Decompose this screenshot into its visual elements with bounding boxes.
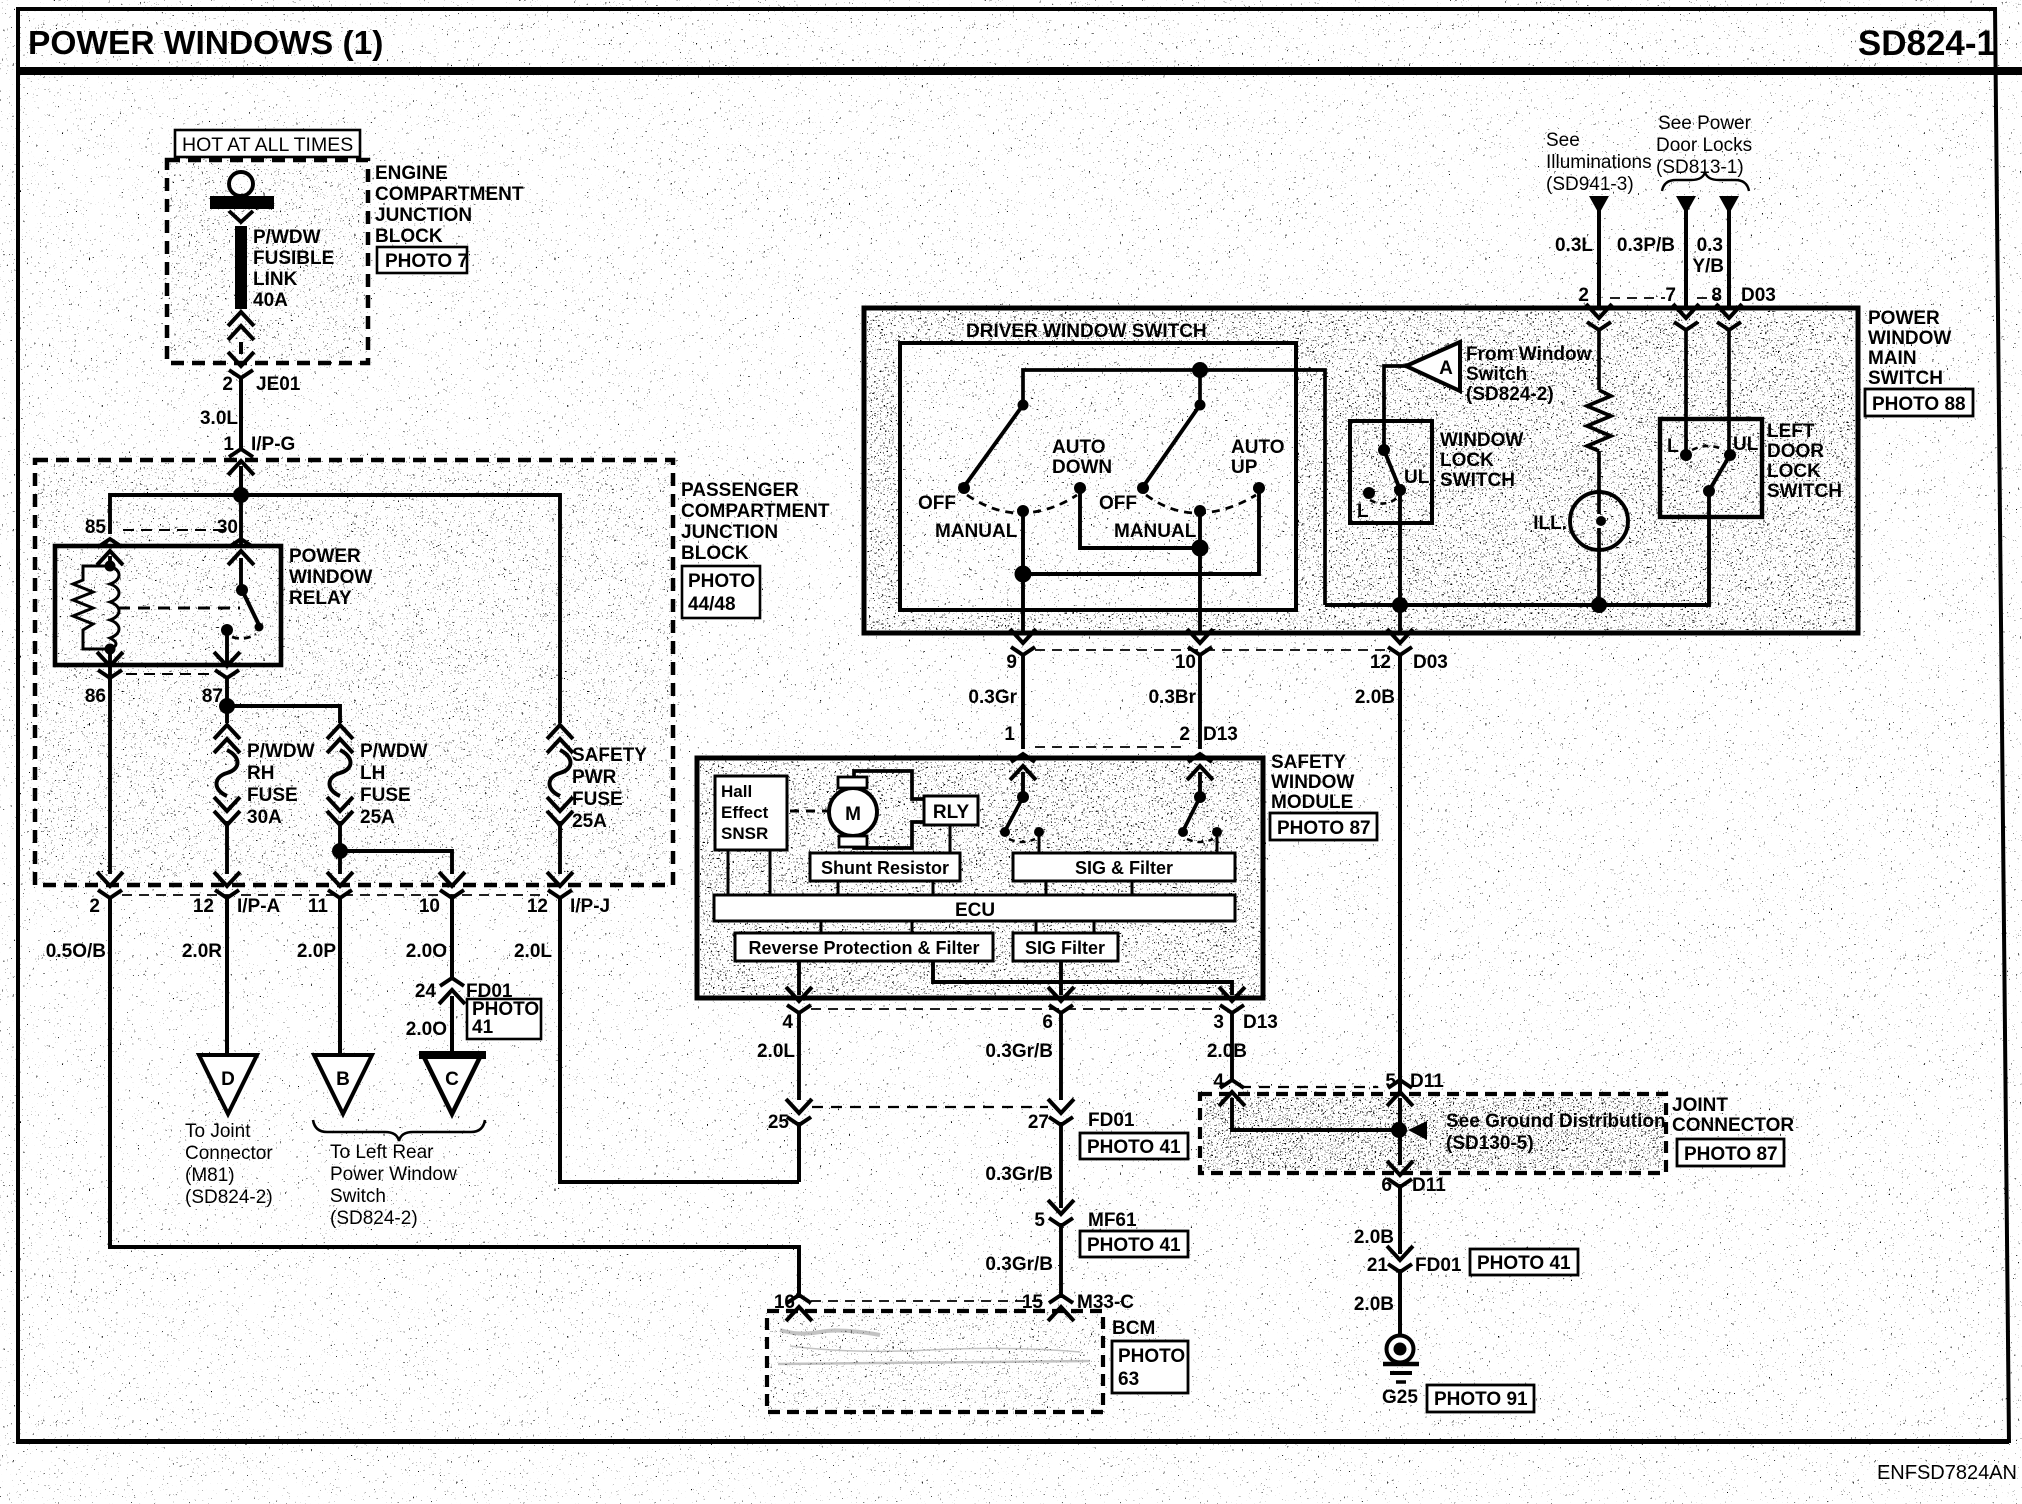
wire switch2 to SIG & Filter	[1216, 832, 1219, 853]
wire top rail right to safety fuse	[241, 495, 560, 723]
module switch 1 arm	[1006, 797, 1023, 829]
svg-text:OFF: OFF	[918, 493, 956, 514]
svg-text:3: 3	[1213, 1012, 1224, 1033]
node: top feed junction	[233, 487, 249, 503]
module switch 1 top contact	[1017, 791, 1029, 803]
svg-text:2: 2	[222, 374, 233, 395]
svg-text:10: 10	[1175, 652, 1196, 673]
wire reverse box to module pin 4	[797, 961, 801, 995]
svg-text:PHOTO 41: PHOTO 41	[1477, 1253, 1571, 1274]
svg-text:D: D	[221, 1069, 235, 1090]
svg-text:25A: 25A	[360, 807, 395, 828]
svg-text:2.0B: 2.0B	[1354, 1227, 1394, 1248]
wire pin 87 to fuse node	[225, 678, 229, 706]
svg-text:25: 25	[768, 1112, 790, 1133]
wire UL contact down to pin 12	[1398, 490, 1402, 633]
battery terminal B+ circle	[229, 172, 253, 196]
door lock UL contact	[1724, 449, 1736, 461]
svg-text:BCM: BCM	[1112, 1318, 1155, 1339]
svg-text:21: 21	[1367, 1255, 1389, 1276]
node fuse branch	[219, 698, 235, 714]
passenger block name label	[681, 480, 830, 564]
svg-text:A: A	[1439, 358, 1453, 379]
note: to left rear power window switch	[330, 1142, 457, 1229]
motor brush bottom	[839, 836, 867, 847]
svg-text:11: 11	[308, 896, 329, 917]
svg-text:SIG Filter: SIG Filter	[1025, 938, 1105, 958]
connector pin 7 into switch	[1673, 304, 1699, 330]
wire pin 7 down to L contact	[1684, 330, 1688, 455]
svg-text:(SD813-1): (SD813-1)	[1656, 157, 1744, 178]
svg-text:P/WDW: P/WDW	[247, 741, 315, 762]
ground rail inside switch	[1325, 517, 1709, 605]
SIG Filter box	[1013, 933, 1118, 961]
dashed connector row 86-87	[126, 673, 214, 675]
wire down to relay pin 30	[239, 495, 243, 546]
PHOTO 41 box (MF61)	[1080, 1231, 1188, 1257]
wire branch to LH fuse	[227, 706, 340, 723]
left switch arm	[966, 405, 1023, 484]
wire LH fuse node down	[338, 851, 342, 874]
svg-text:10: 10	[419, 896, 440, 917]
door lock arm	[1710, 455, 1730, 489]
svg-text:FD01: FD01	[1415, 1255, 1462, 1276]
svg-text:Y/B: Y/B	[1692, 256, 1724, 277]
RLY box	[924, 796, 978, 825]
svg-text:24: 24	[415, 981, 437, 1002]
svg-text:FUSE: FUSE	[572, 789, 623, 810]
SIG & Filter box	[1013, 853, 1235, 881]
svg-text:LOCK: LOCK	[1767, 461, 1821, 482]
svg-text:30: 30	[217, 517, 238, 538]
wire JE01 to I/P-G 3.0L	[239, 378, 243, 448]
svg-text:30A: 30A	[247, 807, 282, 828]
svg-text:JE01: JE01	[256, 374, 301, 395]
svg-text:44/48: 44/48	[688, 594, 736, 615]
module switch 2 top contact	[1194, 791, 1206, 803]
wire 0.3Y/B	[1727, 210, 1731, 306]
svg-text:12: 12	[193, 896, 214, 917]
feed arrowhead 0.3Y/B	[1719, 196, 1739, 214]
svg-text:WINDOW: WINDOW	[289, 567, 372, 588]
module switch 2 dashed arc	[1187, 839, 1213, 842]
wire fusible link to JE01	[239, 342, 243, 354]
PHOTO 41 box (FD01)	[1080, 1133, 1188, 1159]
see ground distribution arrow	[1408, 1121, 1427, 1140]
svg-text:PHOTO 91: PHOTO 91	[1434, 1389, 1528, 1410]
DRIVER WINDOW SWITCH sub-box	[900, 343, 1296, 610]
left border line	[16, 7, 20, 1443]
svg-text:PHOTO: PHOTO	[1118, 1346, 1185, 1367]
svg-text:2.0B: 2.0B	[1354, 1294, 1394, 1315]
svg-text:2: 2	[1179, 724, 1190, 745]
wire AUTO DOWN contact to pin10 wire	[1080, 488, 1200, 548]
connector JE01 at box exit	[228, 352, 254, 378]
svg-text:BLOCK: BLOCK	[375, 226, 443, 247]
BCM interior scan smudge	[778, 1330, 1090, 1364]
PHOTO 87 label box (module)	[1270, 813, 1377, 840]
door lock throw dashed arc	[1692, 446, 1724, 450]
right border line (slightly skewed scan)	[1993, 7, 2011, 1443]
window lock switch label	[1440, 430, 1523, 491]
svg-text:0.3Gr/B: 0.3Gr/B	[985, 1164, 1053, 1185]
module switch 1 left contact	[1000, 827, 1010, 837]
svg-text:Switch: Switch	[1466, 364, 1527, 385]
svg-text:ENGINE: ENGINE	[375, 163, 448, 184]
svg-text:5: 5	[1034, 1210, 1045, 1231]
wire joint pin5 through box	[1398, 1098, 1402, 1165]
wire node to RH fuse	[225, 706, 229, 723]
wire branch to pin 10	[340, 851, 452, 874]
PHOTO 88 label box	[1865, 389, 1973, 416]
svg-text:COMPARTMENT: COMPARTMENT	[375, 184, 524, 205]
svg-text:SD824-1: SD824-1	[1858, 24, 1996, 63]
svg-text:G25: G25	[1382, 1387, 1418, 1408]
wire module pin1 to switch	[1021, 772, 1025, 797]
svg-text:(SD824-2): (SD824-2)	[185, 1187, 273, 1208]
node LH fuse to pin10 branch	[332, 843, 348, 859]
connector module pin 4	[786, 987, 812, 1013]
module box	[697, 758, 1263, 998]
thin dashed connector row 9-10-12	[1035, 649, 1388, 651]
connector BCM pin 16	[786, 1295, 812, 1321]
wire AUTO UP contact to pin9 wire	[1023, 488, 1259, 574]
svg-text:BLOCK: BLOCK	[681, 543, 749, 564]
svg-text:25A: 25A	[572, 811, 607, 832]
connector pin 12 D03	[1387, 629, 1413, 655]
svg-text:Reverse Protection & Filter: Reverse Protection & Filter	[748, 938, 979, 958]
svg-text:AUTO: AUTO	[1231, 437, 1284, 458]
note: see power door locks	[1656, 113, 1752, 178]
node rail to right switch	[1192, 362, 1208, 378]
svg-text:6: 6	[1381, 1175, 1392, 1196]
wire 2.0B pin12 down	[1398, 655, 1402, 1092]
connector BCM pin 15	[1048, 1295, 1074, 1321]
dashed link hall to motor	[790, 810, 828, 813]
title separator thick bar	[19, 67, 2022, 75]
top rail wire	[1023, 370, 1325, 605]
thin dashed connector row	[122, 894, 548, 896]
relay name label	[289, 546, 372, 609]
engine compartment junction block dashed box	[167, 160, 368, 363]
svg-text:To Left Rear: To Left Rear	[330, 1142, 434, 1163]
svg-text:3.0L: 3.0L	[200, 408, 238, 429]
svg-text:L: L	[1667, 436, 1679, 457]
module switch 2 arm	[1184, 797, 1200, 829]
under-brace for triangles B and C	[313, 1120, 485, 1141]
svg-text:D03: D03	[1741, 285, 1776, 306]
svg-text:DOOR: DOOR	[1767, 441, 1824, 462]
connector pin 87	[214, 652, 240, 678]
svg-text:See: See	[1546, 130, 1580, 151]
relay switch arm tip dot	[255, 623, 264, 632]
svg-text:FUSE: FUSE	[247, 785, 298, 806]
connector pin 11	[327, 872, 353, 898]
connector joint pin 6 exit	[1387, 1161, 1413, 1187]
svg-text:D13: D13	[1203, 724, 1238, 745]
svg-text:Effect: Effect	[721, 803, 769, 822]
connector pin 86	[97, 652, 123, 678]
svg-text:86: 86	[85, 686, 106, 707]
svg-text:PHOTO 87: PHOTO 87	[1684, 1144, 1778, 1165]
svg-text:2.0P: 2.0P	[297, 941, 336, 962]
connector 24 FD01	[439, 978, 465, 1004]
wire module pin 6 down	[1059, 1013, 1063, 1100]
wire switch1 to SIG & Filter	[1038, 832, 1041, 853]
svg-text:PHOTO 41: PHOTO 41	[1087, 1235, 1181, 1256]
svg-text:I/P-A: I/P-A	[237, 896, 281, 917]
connector pin 9	[1010, 629, 1036, 655]
illumination resistor wire	[1597, 330, 1601, 390]
svg-text:B: B	[336, 1069, 350, 1090]
svg-text:Switch: Switch	[330, 1186, 386, 1207]
connector module pin 6	[1048, 987, 1074, 1013]
svg-text:Door Locks: Door Locks	[1656, 135, 1752, 156]
svg-text:63: 63	[1118, 1369, 1139, 1390]
svg-text:2.0B: 2.0B	[1207, 1041, 1247, 1062]
wire 21 to ground	[1398, 1269, 1402, 1336]
svg-text:0.3Br: 0.3Br	[1148, 687, 1196, 708]
note: see ground distribution	[1446, 1111, 1666, 1154]
HOT AT ALL TIMES label box	[175, 130, 360, 157]
connector 27 FD01	[1048, 1099, 1074, 1125]
svg-text:LOCK: LOCK	[1440, 450, 1494, 471]
right switch top contact	[1195, 400, 1206, 411]
svg-text:2: 2	[89, 896, 100, 917]
stubs shunt to ECU	[837, 881, 840, 895]
svg-text:WINDOW: WINDOW	[1868, 328, 1951, 349]
main switch box	[864, 308, 1858, 633]
svg-text:OFF: OFF	[1099, 493, 1137, 514]
svg-text:RLY: RLY	[933, 802, 970, 823]
svg-text:0.3Gr/B: 0.3Gr/B	[985, 1254, 1053, 1275]
joint connector dashed box	[1200, 1094, 1666, 1173]
svg-text:PHOTO 88: PHOTO 88	[1872, 394, 1966, 415]
connector module pin 1	[1010, 754, 1036, 780]
wire 25 to U-turn	[797, 1122, 801, 1182]
Hall Effect SNSR box	[715, 776, 787, 850]
PHOTO 91 label box	[1427, 1385, 1534, 1412]
svg-text:2.0L: 2.0L	[514, 941, 552, 962]
passenger compartment junction block dashed box	[35, 460, 673, 885]
svg-text:(SD130-5): (SD130-5)	[1446, 1133, 1534, 1154]
dashed connector row 2-7-8	[1610, 297, 1665, 299]
svg-text:0.5O/B: 0.5O/B	[46, 941, 106, 962]
svg-text:MANUAL: MANUAL	[935, 521, 1018, 542]
svg-text:I/P-G: I/P-G	[251, 434, 295, 455]
svg-text:Connector: Connector	[185, 1143, 273, 1164]
right switch MANUAL contact	[1194, 505, 1206, 517]
lock switch L contact	[1363, 487, 1375, 499]
svg-text:RELAY: RELAY	[289, 588, 352, 609]
wire pin 2 down and across to BCM pin 16	[110, 898, 799, 1298]
motor frame	[854, 771, 924, 848]
thin dashed connector row 16-15	[811, 1300, 1048, 1302]
svg-text:LEFT: LEFT	[1767, 421, 1815, 442]
connector 5 MF61	[1048, 1200, 1074, 1226]
right switch feed stub	[1198, 370, 1202, 404]
svg-text:1: 1	[223, 434, 234, 455]
wire MF61 down to BCM pin 15	[1059, 1223, 1063, 1298]
note: to joint connector	[185, 1121, 273, 1208]
WINDOW LOCK SWITCH box	[1350, 421, 1432, 523]
resistor (illumination)	[1587, 390, 1611, 451]
svg-text:(SD824-2): (SD824-2)	[1466, 384, 1554, 405]
svg-text:MF61: MF61	[1088, 1210, 1137, 1231]
svg-text:WINDOW: WINDOW	[1271, 772, 1354, 793]
svg-text:JUNCTION: JUNCTION	[681, 522, 778, 543]
svg-text:8: 8	[1711, 285, 1722, 306]
svg-text:P/WDW: P/WDW	[360, 741, 428, 762]
door lock common contact	[1703, 485, 1715, 497]
connector pin 10	[1187, 629, 1213, 655]
wire pin 86 down to box exit	[108, 678, 112, 874]
svg-text:PHOTO 87: PHOTO 87	[1277, 818, 1371, 839]
destination triangle B	[314, 1055, 372, 1114]
svg-text:12: 12	[1370, 652, 1391, 673]
node AUTO UP crossover on pin9 wire	[1015, 566, 1032, 583]
svg-text:UL: UL	[1733, 434, 1759, 455]
svg-text:POWER: POWER	[289, 546, 361, 567]
ECU box	[714, 895, 1235, 921]
stubs ECU to reverse protection	[820, 921, 823, 933]
note: see illuminations	[1546, 130, 1652, 195]
wire 0.3Br pin10 to module pin2	[1198, 655, 1202, 749]
svg-text:RH: RH	[247, 763, 274, 784]
stubs hall to ECU	[727, 850, 730, 895]
svg-text:(SD941-3): (SD941-3)	[1546, 174, 1634, 195]
relay coil (bumps)	[110, 566, 119, 649]
connector 25	[786, 1099, 812, 1125]
relay coil bottom node	[105, 644, 116, 655]
svg-text:12: 12	[527, 896, 548, 917]
svg-text:0.3Gr: 0.3Gr	[968, 687, 1017, 708]
BCM dashed box	[767, 1311, 1103, 1412]
relay resistor (parallel)	[73, 566, 110, 649]
svg-text:9: 9	[1006, 652, 1017, 673]
connector pin 85	[97, 539, 123, 565]
svg-text:6: 6	[1042, 1012, 1053, 1033]
svg-text:ILL.: ILL.	[1533, 513, 1567, 534]
relay mechanical link dashed	[118, 607, 240, 610]
SAFETY PWR FUSE 25A	[547, 725, 573, 753]
svg-text:D11: D11	[1410, 1071, 1444, 1092]
lock switch arm to UL	[1384, 450, 1399, 487]
PHOTO 87 label box (joint)	[1677, 1139, 1784, 1166]
wire lamp down to rail	[1597, 550, 1601, 605]
svg-text:PHOTO: PHOTO	[688, 571, 755, 592]
wire pin 8 down to UL contact	[1727, 330, 1731, 455]
battery bus bar	[210, 196, 274, 209]
svg-text:FUSE: FUSE	[360, 785, 411, 806]
Reverse Protection & Filter box	[735, 933, 993, 961]
svg-text:1: 1	[1004, 724, 1015, 745]
svg-text:2.0B: 2.0B	[1355, 687, 1395, 708]
wire joint pin4 to ground bus	[1232, 1098, 1399, 1130]
lock switch throw dashed arc	[1370, 498, 1397, 504]
wire RLY down to shunt	[949, 825, 952, 853]
svg-text:SAFETY: SAFETY	[572, 745, 647, 766]
connector pin 30	[228, 539, 254, 565]
connector pin 10	[439, 872, 465, 898]
relay coil top node	[105, 561, 116, 572]
right switch OFF contact	[1137, 482, 1149, 494]
svg-text:ECU: ECU	[955, 900, 995, 921]
wire module pin 4 down	[797, 1013, 801, 1100]
svg-text:0.3P/B: 0.3P/B	[1617, 235, 1675, 256]
svg-text:L: L	[1357, 501, 1369, 522]
svg-text:AUTO: AUTO	[1052, 437, 1105, 458]
connector module pin 3	[1219, 987, 1245, 1013]
svg-text:POWER: POWER	[1868, 308, 1940, 329]
svg-text:0.3: 0.3	[1697, 235, 1723, 256]
wire resistor to lamp	[1597, 451, 1601, 492]
dashed connector row 4-5 D11	[1240, 1086, 1378, 1088]
svg-text:Hall: Hall	[721, 782, 752, 801]
svg-text:2.0L: 2.0L	[757, 1041, 795, 1062]
svg-text:CONNECTOR: CONNECTOR	[1672, 1115, 1794, 1136]
left switch throw dashed arc	[967, 495, 1077, 513]
svg-text:MANUAL: MANUAL	[1114, 521, 1197, 542]
module switch 2 right contact	[1212, 827, 1222, 837]
wire pin 12 I/P-A down to triangle D	[225, 898, 229, 1053]
PHOTO 44/48 label box	[682, 566, 760, 618]
relay switch dashed throw arc	[232, 634, 256, 638]
svg-text:P/WDW: P/WDW	[253, 227, 321, 248]
svg-text:D13: D13	[1243, 1012, 1278, 1033]
lock switch UL contact	[1394, 484, 1406, 496]
wire pin 10 down to FD01 connector	[450, 898, 454, 978]
svg-text:To Joint: To Joint	[185, 1121, 251, 1142]
ILL lamp	[1570, 492, 1628, 550]
connector joint pin 5	[1387, 1080, 1413, 1106]
top border line	[16, 7, 1995, 11]
relay switch arm	[242, 590, 259, 625]
svg-text:2.0O: 2.0O	[406, 941, 447, 962]
svg-text:WINDOW: WINDOW	[1440, 430, 1523, 451]
svg-text:See Power: See Power	[1658, 113, 1752, 134]
wire common down to rail	[1707, 491, 1711, 517]
wire pin 12 I/P-J down (2.0L return leg)	[560, 898, 799, 1182]
svg-text:D11: D11	[1412, 1175, 1446, 1196]
engine block name label	[375, 163, 524, 247]
svg-text:MODULE: MODULE	[1271, 792, 1353, 813]
node rail at lamp wire	[1591, 597, 1607, 613]
svg-text:HOT AT ALL TIMES: HOT AT ALL TIMES	[182, 134, 353, 156]
wire A triangle to window lock switch	[1384, 366, 1406, 450]
svg-text:PWR: PWR	[572, 767, 617, 788]
right switch throw dashed arc	[1146, 495, 1256, 513]
module switch 1 dashed arc	[1009, 839, 1035, 842]
svg-text:UL: UL	[1404, 467, 1430, 488]
BCM interior scan speckle	[770, 1314, 1100, 1409]
PHOTO 7 label box	[377, 247, 468, 273]
svg-text:SWITCH: SWITCH	[1868, 368, 1943, 389]
fusible link P/WDW 40A body bar	[235, 226, 247, 309]
svg-text:4: 4	[782, 1012, 793, 1033]
dashed connector row 85-30	[123, 529, 228, 531]
wire module pin 3 down	[1230, 1013, 1234, 1080]
wire MANUAL contact down to pin 9	[1021, 511, 1025, 633]
wire top rail left to pin 85	[110, 495, 241, 534]
left switch top contact	[1018, 400, 1029, 411]
svg-text:DOWN: DOWN	[1052, 457, 1112, 478]
wire sig filter to module pin 6	[1059, 961, 1063, 995]
node rail at pin12 wire	[1392, 597, 1408, 613]
relay switch top contact	[236, 584, 248, 596]
P/WDW LH FUSE 25A	[327, 725, 353, 753]
svg-text:(SD824-2): (SD824-2)	[330, 1208, 418, 1229]
